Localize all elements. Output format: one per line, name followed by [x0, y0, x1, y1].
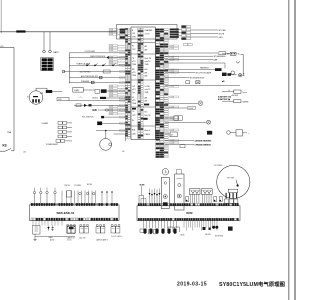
svg-text:WT-HARNESS: WT-HARNESS	[214, 55, 227, 58]
svg-text:auto/TD: auto/TD	[145, 88, 152, 91]
diode pair row	[74, 104, 125, 106]
pressure switch PS1 big circle	[217, 165, 250, 198]
twin dots	[212, 226, 218, 229]
svg-text:0.85B: 0.85B	[109, 62, 113, 64]
XT1 bottom pin row	[31, 218, 118, 221]
svg-text:14 PM: 14 PM	[145, 86, 150, 88]
connector X3 column	[156, 29, 169, 158]
wire tilt row	[104, 116, 125, 118]
sheet border left edge remnant	[0, 0, 2, 33]
svg-text:xDM B/W: xDM B/W	[231, 95, 239, 97]
wire GIB row	[98, 109, 125, 111]
PS1 lever	[236, 180, 239, 187]
open frame U2	[175, 227, 180, 232]
svg-text:BAT.P: BAT.P	[54, 51, 60, 54]
wire left vertical bus	[13, 48, 15, 151]
svg-text:2019-03-15: 2019-03-15	[177, 281, 207, 287]
svg-text:1.25R: 1.25R	[170, 70, 174, 72]
svg-text:OUT: OUT	[132, 115, 136, 117]
relay box K5	[68, 226, 76, 234]
wire DMU row	[83, 89, 95, 91]
svg-text:M4 (7)8: M4 (7)8	[145, 115, 151, 117]
svg-text:0.5G/W: 0.5G/W	[188, 108, 194, 110]
svg-text:0.85B: 0.85B	[109, 64, 113, 66]
svg-text:SKD-ESK-01: SKD-ESK-01	[57, 211, 75, 215]
svg-text:C2 D0: C2 D0	[67, 240, 72, 242]
small box right of DMU	[95, 90, 100, 94]
svg-text:-W-: -W-	[122, 151, 125, 153]
wire engine backup row	[165, 78, 205, 80]
svg-text:0.85B: 0.85B	[109, 45, 113, 47]
svg-text:0.85B: 0.85B	[109, 114, 113, 116]
terminal circle T2	[49, 50, 52, 53]
harness outline box top connector group	[117, 25, 178, 40]
DMU monitor box	[73, 88, 84, 93]
wire harness C row	[165, 58, 218, 61]
svg-text:3: 3	[164, 170, 166, 174]
XT2 top pin row	[138, 203, 239, 205]
XT2 riser bracket 2	[141, 199, 146, 204]
svg-text:0.85B: 0.85B	[109, 111, 113, 113]
travel alarm switch blades	[86, 64, 89, 67]
controller A1 text black accents	[132, 104, 149, 120]
svg-text:4:ENGINE HARNESS: 4:ENGINE HARNESS	[195, 139, 213, 142]
svg-text:WT-ENGINE B/UP: WT-ENGINE B/UP	[190, 78, 206, 80]
solenoid valve V1	[67, 224, 76, 233]
motor M1 circle	[100, 139, 112, 151]
open frame U1	[168, 227, 173, 232]
small box y146	[180, 145, 185, 148]
svg-text:1.25R: 1.25R	[170, 97, 174, 99]
relay card RC2	[175, 174, 184, 210]
svg-text:⊣: ⊣	[248, 132, 250, 135]
svg-text:COIL K GND B: COIL K GND B	[111, 236, 122, 238]
svg-text:0.85B: 0.85B	[109, 88, 113, 90]
svg-text:A1: A1	[24, 150, 26, 153]
svg-text:Bank PR: Bank PR	[145, 58, 152, 60]
svg-text:CONT/JUMP: CONT/JUMP	[85, 51, 96, 53]
sensor SN2 row	[222, 100, 249, 104]
twin box y117	[165, 116, 182, 120]
engine label rows	[165, 139, 212, 146]
drop connector blob 1	[203, 227, 206, 230]
svg-text:1.25R: 1.25R	[170, 60, 174, 62]
wire label on top bus	[16, 30, 25, 32]
row CONT JUMP start	[69, 52, 125, 54]
svg-text:MAIN PRESSURE: MAIN PRESSURE	[90, 55, 106, 58]
svg-text:0.85B: 0.85B	[109, 106, 113, 108]
controller A1 inner pin column	[138, 28, 144, 138]
svg-text:OIL PRESS: OIL PRESS	[214, 165, 224, 167]
terminal circle T1	[43, 50, 46, 53]
terminal block XT2 body DCM	[137, 206, 240, 221]
wire ACC feed left	[0, 47, 14, 49]
label coil K	[50, 239, 72, 242]
motor M1 brush circle	[109, 143, 112, 146]
resistor boxes under coils	[149, 230, 157, 234]
XT1 riser terminals with circles	[33, 188, 56, 204]
harness to X2 stubs	[177, 30, 182, 36]
wire X2 pin1	[191, 29, 218, 31]
XT1 plain risers	[62, 191, 96, 204]
svg-text:0.85B: 0.85B	[109, 93, 113, 95]
svg-text:WT-OPTION LAMP: WT-OPTION LAMP	[196, 71, 212, 74]
controller A1 left pin column	[125, 28, 130, 138]
wire stub motor right	[114, 133, 126, 135]
svg-text:DMU: DMU	[74, 90, 79, 92]
connector X2b pair	[184, 44, 193, 46]
svg-text:SB/NM: SB/NM	[243, 101, 249, 103]
controller A1 section dividers	[131, 43, 155, 127]
svg-text:CAN-H: CAN-H	[145, 133, 151, 136]
connector oval GIB	[105, 109, 109, 111]
svg-text:0.85B: 0.85B	[109, 32, 113, 34]
idle speed terminal circle	[62, 70, 65, 73]
svg-text:Tpr: Tpr	[132, 91, 135, 94]
sheet border inner line	[288, 0, 290, 300]
relay card RC1	[161, 178, 169, 209]
svg-text:5:FRAME HARNESS: 5:FRAME HARNESS	[195, 144, 212, 147]
XT1 risers with arrows	[101, 191, 113, 204]
inline diode symbols row	[149, 189, 161, 204]
harness A connector box	[219, 52, 230, 56]
solenoid valve V4	[111, 224, 120, 233]
wire fuse to panel	[52, 91, 62, 93]
valve pair VP2	[202, 189, 213, 204]
XT2 riser bracket 1	[139, 196, 144, 204]
wire X2 pin3	[191, 36, 218, 38]
svg-text:0.85B: 0.85B	[109, 48, 113, 50]
svg-text:PREHEAT: PREHEAT	[81, 80, 90, 83]
XT1 riser terminals right group	[79, 192, 95, 194]
wire long row y85.5	[165, 85, 240, 87]
svg-text:1.25R: 1.25R	[170, 107, 174, 109]
svg-text:5Y 68NN: 5Y 68NN	[74, 185, 82, 187]
XT2 bottom pin row	[138, 218, 239, 220]
option relay loop wire top	[222, 52, 240, 55]
GND wire under XT1	[35, 236, 75, 238]
svg-text:0.85B: 0.85B	[109, 91, 113, 93]
terminal block XT1 body	[30, 205, 120, 221]
wire label tags left of controller	[109, 29, 125, 116]
svg-text:K-LAMP: K-LAMP	[42, 122, 49, 125]
idle speed potentiometer box	[103, 70, 110, 73]
svg-text:TILT_SWITCH: TILT_SWITCH	[82, 117, 94, 119]
wire X2 pin2	[191, 33, 218, 35]
svg-text:1X6: 1X6	[132, 33, 135, 35]
svg-text:WT-FR: WT-FR	[219, 34, 225, 36]
ignition switch S1 circle	[29, 91, 43, 105]
PS1 connector box	[228, 189, 238, 192]
power assy pair	[56, 140, 72, 143]
riser line tall	[141, 186, 143, 196]
wire tags at pin entry	[120, 52, 125, 132]
wire harness A row	[165, 52, 218, 54]
row TRAVEL ALARM	[69, 64, 125, 66]
svg-text:TNA: TNA	[7, 131, 12, 134]
svg-text:1.25R: 1.25R	[170, 120, 174, 122]
svg-text:WT-CAB: WT-CAB	[219, 29, 227, 32]
valve pair VP1	[189, 189, 200, 204]
fuse holder rows	[58, 122, 72, 138]
wire loop row y63	[165, 63, 225, 69]
svg-text:POWER ASSY: POWER ASSY	[46, 143, 59, 146]
battery note text	[218, 96, 232, 101]
sheet border outer line	[294, 0, 296, 300]
wire harness B row	[165, 55, 226, 58]
harness label stack dark rows	[120, 29, 125, 39]
ignition switch contacts	[32, 96, 39, 103]
svg-text:0.85B: 0.85B	[109, 59, 113, 61]
svg-text:4 OUT: 4 OUT	[145, 33, 150, 35]
12V supply box	[57, 98, 69, 101]
small box with dot B1	[186, 197, 189, 202]
row MAIN PRESSURE	[69, 57, 125, 59]
grommet circle G1	[231, 71, 235, 75]
GND tick	[34, 234, 37, 241]
labels above XT1	[64, 184, 93, 187]
svg-text:12B 34L: 12B 34L	[64, 185, 70, 187]
wire ignition to fuse	[36, 88, 47, 91]
black blob row104	[89, 104, 92, 106]
relay block K1	[41, 58, 53, 71]
option relay loop vertical	[242, 55, 244, 77]
relay card RC2 top stubs	[177, 170, 182, 175]
junction dot motor	[105, 130, 106, 131]
svg-text:0.85B: 0.85B	[109, 29, 113, 31]
svg-text:W-NN: W-NN	[140, 184, 146, 186]
svg-text:0.85B: 0.85B	[109, 86, 113, 88]
row PREHEAT	[69, 82, 125, 84]
svg-text:4B 5NN: 4B 5NN	[205, 234, 211, 236]
wire label tags right of connector X3	[170, 29, 179, 145]
svg-text:0.85B: 0.85B	[109, 96, 113, 98]
svg-text:Back B: Back B	[145, 130, 151, 132]
svg-text:Tprcn: Tprcn	[242, 92, 247, 94]
svg-text:HARNESS: HARNESS	[200, 66, 209, 69]
suppressor box D1	[33, 226, 41, 235]
switch panel left bus	[68, 53, 70, 84]
small tag y108	[165, 107, 196, 110]
svg-text:0.85B: 0.85B	[109, 34, 113, 36]
svg-text:OUT: OUT	[132, 49, 136, 51]
pump unit cluster right	[227, 130, 250, 136]
box tag y133	[165, 132, 177, 137]
svg-text:GND: GND	[219, 37, 224, 39]
svg-text:B2 NN: B2 NN	[87, 184, 93, 186]
hook symbol U	[236, 61, 239, 63]
loop grommet	[238, 71, 245, 77]
svg-text:NN 88 NN2: NN 88 NN2	[215, 236, 223, 238]
component box above XT1	[67, 191, 72, 197]
svg-text:K3: K3	[3, 144, 7, 148]
XT1 drop wires	[33, 221, 62, 226]
switch arrow main pressure	[107, 56, 109, 59]
circled numeral 3	[162, 169, 168, 175]
svg-text:auto/TD: auto/TD	[145, 60, 152, 63]
preheat resistor box	[91, 81, 94, 84]
svg-text:AIR PRESSURE SW: AIR PRESSURE SW	[81, 75, 98, 78]
wire B+ top bus	[0, 31, 117, 33]
svg-text:1.25R: 1.25R	[170, 46, 174, 48]
small box with dot B3	[219, 197, 222, 202]
XT2 coil drops	[143, 221, 176, 234]
svg-text:ACM 2: ACM 2	[93, 97, 99, 100]
wire option lamp row	[165, 68, 222, 71]
wire drop to relay terminals	[43, 32, 45, 51]
svg-text:CHANNEL: CHANNEL	[145, 29, 153, 32]
wire horn row	[102, 122, 125, 124]
sensor SN1 row	[222, 90, 247, 94]
svg-text:SY80C1Y5LUM电气原理图: SY80C1Y5LUM电气原理图	[219, 280, 285, 288]
lamp circle row y103.5	[165, 101, 203, 106]
row AIR PRESSURE SWITCH	[69, 77, 125, 79]
drop connector blob 3	[228, 227, 233, 231]
controller A1 body	[131, 27, 155, 140]
svg-text:1B 2B: 1B 2B	[180, 235, 184, 237]
XT2 plain drops right half	[184, 221, 217, 231]
black module box	[101, 89, 107, 93]
black box y131 right	[207, 131, 212, 135]
wire ACM row	[106, 97, 125, 99]
controller A1 section text	[132, 29, 153, 136]
air pressure switch symbol	[100, 76, 102, 79]
solenoid valve V3	[96, 224, 105, 233]
drop connector blob 2	[209, 228, 211, 230]
horn relay solid box	[97, 122, 102, 126]
PS1 hatch pins	[226, 193, 238, 199]
svg-text:1.25R: 1.25R	[170, 57, 174, 59]
connector X2 stack top right	[182, 26, 191, 40]
row IDLE SPEED	[64, 71, 126, 73]
small box with dot B2	[214, 197, 217, 202]
svg-text:GND: GND	[49, 237, 54, 239]
wire down to motor M1	[105, 131, 107, 139]
svg-text:M 3: M 3	[145, 112, 148, 114]
resistor tag row y82	[186, 81, 200, 84]
svg-text:0.85B: 0.85B	[109, 109, 113, 111]
loop bottom black modules	[222, 73, 237, 76]
svg-text:0.85B: 0.85B	[109, 50, 113, 52]
XT1 top pin row	[31, 203, 118, 206]
wire X2 pin labels	[219, 29, 227, 39]
coil aux box	[140, 229, 145, 232]
ACM2 black box	[100, 97, 106, 99]
svg-text:DCM: DCM	[187, 211, 193, 215]
svg-text:TRAVEL ALARM: TRAVEL ALARM	[76, 63, 90, 66]
solenoid valve V2	[80, 224, 89, 233]
bottom tags under XT2	[180, 234, 223, 238]
svg-text:GIB: GIB	[92, 109, 97, 112]
svg-text:-CD: -CD	[0, 46, 4, 48]
diode pair D2	[47, 226, 53, 232]
svg-text:1.25R: 1.25R	[170, 86, 174, 88]
wire motor junction row	[96, 130, 125, 132]
svg-text:1.25R: 1.25R	[170, 48, 174, 50]
svg-text:IDLE SPEED: IDLE SPEED	[80, 72, 91, 74]
switch contact K3	[0, 150, 5, 152]
lamp circle row y122.5	[165, 120, 211, 124]
fuse F1 black body	[46, 90, 52, 93]
wire option lamp label row	[165, 71, 212, 74]
valve labels row	[67, 236, 122, 241]
tilt switch black box	[101, 116, 104, 118]
wire drop 2 to relay terminals	[49, 32, 51, 51]
option relay loop top corner	[241, 54, 244, 56]
svg-text:KEY SW: KEY SW	[227, 178, 234, 180]
svg-text:1.25R: 1.25R	[170, 130, 174, 132]
wire 12V row	[69, 100, 125, 102]
svg-text:0.85B: 0.85B	[109, 57, 113, 59]
PS1 base boxes	[225, 199, 238, 203]
